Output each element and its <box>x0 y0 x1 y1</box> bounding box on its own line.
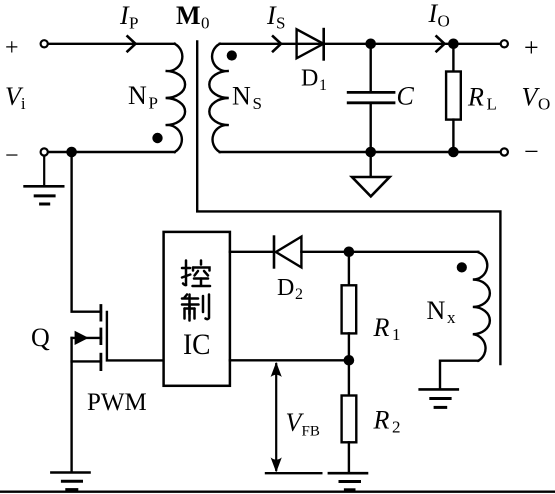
wire drain: bottom rail junction down to MOSFET drain <box>72 152 101 312</box>
diode D1 <box>297 29 324 58</box>
polarity dot NP <box>152 133 162 143</box>
svg-text:+: + <box>524 33 539 62</box>
bottom border line <box>0 491 555 493</box>
svg-text:O: O <box>438 12 450 31</box>
svg-text:1: 1 <box>319 77 327 94</box>
terminal Vo + (open circle) <box>501 40 508 47</box>
wire bottom-left rail Vi- to primary <box>49 151 175 153</box>
node dot RL bottom <box>448 147 459 158</box>
terminal Vo - (open circle) <box>501 148 508 155</box>
svg-text:1: 1 <box>392 325 401 344</box>
svg-text:L: L <box>487 95 497 114</box>
svg-text:R: R <box>373 313 390 342</box>
op-amp substitute: control IC box <box>164 232 230 386</box>
resistor R1 <box>348 252 350 285</box>
wire VFB reference level line <box>266 472 321 474</box>
wire source down to ground <box>70 338 72 472</box>
arrow IO current arrowhead <box>437 36 445 51</box>
wire IC bottom-right pin to R1/R2 junction <box>230 359 349 361</box>
arrow IS current arrowhead <box>273 36 281 51</box>
svg-text:R: R <box>467 82 484 111</box>
svg-text:P: P <box>129 14 138 33</box>
label hanzi zhi (制) drawn strokes <box>182 295 209 321</box>
polarity dot NS <box>227 50 237 60</box>
transistor Q source lead <box>72 360 101 362</box>
svg-text:N: N <box>128 81 147 110</box>
svg-text:P: P <box>149 94 158 113</box>
transistor Q body lead with arrow <box>72 337 101 339</box>
node dot capacitor top <box>365 39 376 50</box>
svg-text:2: 2 <box>392 418 401 437</box>
capacitor C <box>370 44 372 91</box>
node dot D2/R1 junction <box>344 247 355 258</box>
arrow VFB double-headed measure arrow <box>275 364 277 470</box>
svg-text:x: x <box>447 308 456 327</box>
ground below R2 <box>329 473 367 490</box>
terminal Vi + (open circle) <box>41 40 48 47</box>
ground secondary (triangle) <box>352 177 390 196</box>
resistor R2 <box>348 360 350 395</box>
svg-text:PWM: PWM <box>87 389 147 416</box>
terminal Vi - (open circle) <box>41 148 48 155</box>
arrow IP current arrowhead <box>128 36 136 51</box>
polarity dot Nx <box>457 262 467 272</box>
svg-text:Q: Q <box>31 323 50 352</box>
node dot RL top <box>448 39 459 50</box>
resistor RL <box>452 44 454 72</box>
svg-text:R: R <box>373 406 390 435</box>
transformer primary winding NP <box>166 44 185 152</box>
svg-text:FB: FB <box>302 423 320 439</box>
ground below Vi- terminal <box>25 186 64 204</box>
diode D2 <box>273 237 276 268</box>
transformer secondary winding NS <box>209 44 228 152</box>
ground below MOSFET source <box>51 473 89 490</box>
wire Nx bottom to ground <box>440 361 478 389</box>
svg-text:−: − <box>524 137 539 166</box>
svg-text:N: N <box>232 82 251 111</box>
label hanzi kong (控) drawn strokes <box>182 261 210 287</box>
wire secondary bottom rail <box>220 151 501 153</box>
svg-text:D: D <box>277 275 294 301</box>
svg-text:D: D <box>301 66 318 92</box>
svg-text:IC: IC <box>183 328 211 361</box>
svg-text:+: + <box>5 35 19 61</box>
wire D2 to Nx winding top <box>301 251 478 253</box>
ground below Nx <box>420 389 458 407</box>
node dot capacitor bottom <box>365 147 376 158</box>
svg-text:C: C <box>397 81 415 110</box>
wire top-left rail Vi+ to primary <box>49 43 175 45</box>
svg-text:0: 0 <box>201 14 210 33</box>
svg-text:M: M <box>176 1 201 30</box>
auxiliary winding Nx <box>473 252 490 361</box>
svg-text:−: − <box>5 143 19 169</box>
node dot R1/R2/IC junction <box>344 355 355 366</box>
wire capacitor bottom node to signal ground <box>370 152 372 177</box>
wire Vi- terminal down to ground <box>43 156 45 186</box>
transistor Q MOSFET channel bars <box>100 306 103 370</box>
transistor Q gate electrode and wire to IC <box>107 312 164 360</box>
svg-text:Vi: Vi <box>5 82 26 113</box>
svg-text:2: 2 <box>295 286 303 303</box>
svg-text:N: N <box>427 296 446 325</box>
wire IC top-right pin to D2 <box>230 251 274 253</box>
svg-text:S: S <box>253 94 262 113</box>
svg-text:S: S <box>276 14 285 33</box>
svg-text:O: O <box>538 95 550 114</box>
wire secondary top rail NS to output + <box>220 43 501 45</box>
node junction dot on bottom-left rail <box>66 147 77 158</box>
transformer core line and link to Nx core <box>197 42 500 365</box>
